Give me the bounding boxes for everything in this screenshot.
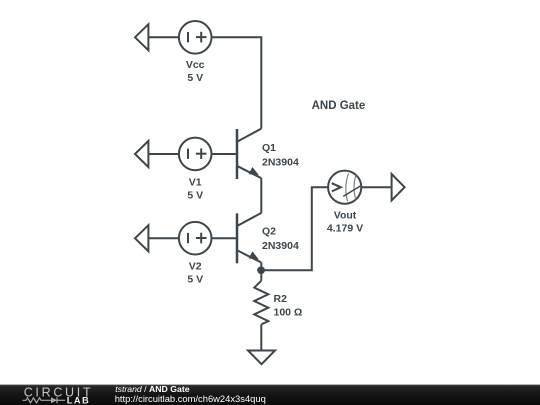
wire node to voltmeter — [261, 187, 328, 270]
ground — [248, 351, 275, 365]
svg-text:AND Gate: AND Gate — [312, 100, 366, 112]
transistor Q2 — [237, 213, 261, 263]
voltmeter Vout — [328, 171, 361, 204]
svg-text:http://circuitlab.com/ch6w24x3: http://circuitlab.com/ch6w24x3s4quq — [115, 393, 266, 404]
wire Q2 emitter to output node — [260, 263, 262, 271]
voltage source V2 — [179, 222, 212, 255]
label Q2 — [262, 226, 299, 253]
svg-text:100 Ω: 100 Ω — [274, 307, 303, 319]
svg-text:V2: V2 — [189, 261, 202, 273]
wire node to resistor — [260, 270, 262, 281]
svg-text:5 V: 5 V — [187, 190, 203, 202]
label R2 value — [274, 293, 303, 319]
svg-text:V1: V1 — [189, 177, 202, 189]
wire Vcc to collector node — [212, 37, 262, 128]
node junction dot — [257, 266, 265, 274]
label V2 value — [187, 261, 203, 286]
input flag (V1) — [135, 141, 148, 167]
svg-text:2N3904: 2N3904 — [262, 156, 299, 168]
input flag (V2) — [135, 225, 148, 251]
svg-text:LAB: LAB — [67, 395, 90, 405]
svg-text:Q2: Q2 — [262, 226, 276, 238]
transistor Q1 — [237, 129, 261, 179]
wire resistor to ground — [260, 324, 262, 350]
svg-text:Vcc: Vcc — [186, 59, 205, 71]
resistor R2 — [254, 281, 268, 325]
output flag (Vout) — [392, 174, 405, 200]
footer bar — [0, 385, 540, 405]
svg-text:R2: R2 — [274, 293, 288, 305]
svg-text:Q1: Q1 — [262, 142, 276, 154]
wire voltmeter to output flag — [361, 186, 391, 188]
wire flag to V1 — [148, 153, 179, 155]
wire V2 to Q2 base — [212, 237, 237, 239]
label V1 value — [187, 177, 203, 202]
voltage source V1 — [179, 138, 212, 171]
svg-text:Vout: Vout — [334, 210, 357, 222]
label Q1 — [262, 142, 299, 169]
wire V1 to Q1 base — [212, 153, 237, 155]
label Vcc value — [186, 59, 205, 84]
wire Q1 emitter to Q2 collector — [260, 178, 262, 213]
label Vout value — [327, 210, 363, 235]
voltage source Vcc — [179, 21, 212, 54]
wire flag to Vcc — [148, 36, 179, 38]
svg-text:5 V: 5 V — [187, 72, 203, 84]
logo CircuitLab wordmark — [23, 386, 94, 405]
svg-text:4.179 V: 4.179 V — [327, 223, 363, 235]
wire flag to V2 — [148, 237, 179, 239]
svg-text:2N3904: 2N3904 — [262, 240, 299, 252]
svg-text:5 V: 5 V — [187, 274, 203, 286]
footer title text — [115, 384, 266, 404]
input flag (Vcc) — [135, 24, 148, 50]
